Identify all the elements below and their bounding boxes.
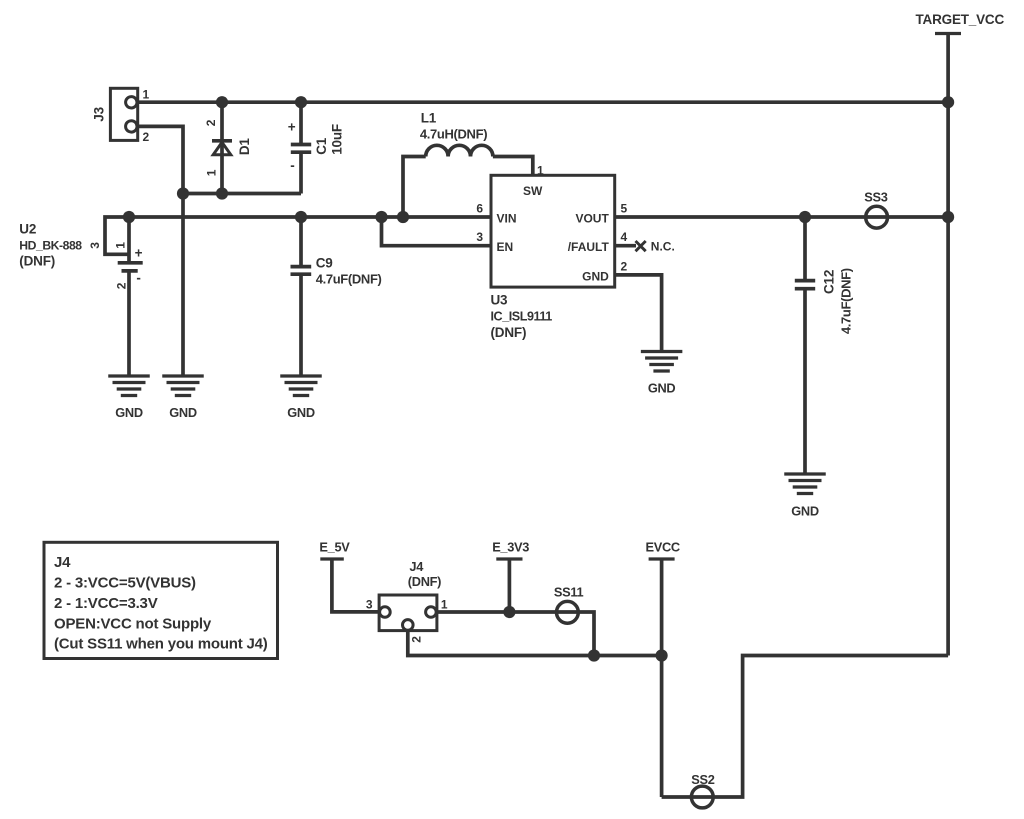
svg-text:2: 2 — [114, 282, 128, 289]
junction — [588, 649, 600, 661]
solder jumper SS3 — [864, 190, 887, 229]
svg-text:2: 2 — [410, 636, 424, 643]
svg-text:SS11: SS11 — [554, 585, 584, 600]
svg-text:2 - 3:VCC=5V(VBUS): 2 - 3:VCC=5V(VBUS) — [54, 575, 196, 592]
svg-text:EN: EN — [497, 240, 514, 254]
junction — [942, 96, 954, 108]
junction — [295, 211, 307, 223]
svg-text:3: 3 — [476, 230, 483, 244]
ground (U2) — [108, 376, 150, 420]
svg-text:1: 1 — [143, 88, 150, 102]
svg-text:3: 3 — [366, 598, 373, 612]
capacitor C9 — [291, 217, 382, 376]
svg-text:2: 2 — [143, 130, 150, 144]
junction — [295, 96, 307, 108]
wire top rail — [138, 100, 948, 104]
svg-text:6: 6 — [476, 201, 483, 215]
svg-text:10uF: 10uF — [330, 124, 345, 155]
svg-text:(DNF): (DNF) — [408, 574, 441, 589]
wire TARGET_VCC vertical — [946, 34, 950, 656]
power flag EVCC — [646, 539, 680, 559]
ground (C12) — [784, 474, 826, 518]
svg-text:J4: J4 — [54, 554, 71, 571]
svg-text:1: 1 — [205, 169, 219, 176]
no-connect N.C. — [636, 239, 675, 253]
IC U3 — [476, 175, 627, 340]
junction — [177, 187, 189, 199]
wire E_5V to J4 pin 3 — [332, 559, 379, 612]
wire FAULT stub — [615, 244, 636, 248]
wire J4 pin 2 bottom — [408, 631, 662, 656]
junction — [397, 211, 409, 223]
svg-text:U2: U2 — [19, 222, 36, 237]
svg-text:VIN: VIN — [497, 211, 517, 225]
svg-text:D1: D1 — [237, 138, 252, 156]
svg-text:-: - — [290, 158, 294, 173]
ground (J3 pin 2) — [162, 376, 204, 420]
battery U2 — [19, 217, 142, 376]
svg-text:N.C.: N.C. — [651, 239, 675, 253]
svg-text:(DNF): (DNF) — [491, 325, 527, 340]
svg-text:GND: GND — [582, 270, 609, 284]
wire J3 pin 2 to GND — [138, 126, 183, 376]
svg-text:4: 4 — [621, 230, 628, 244]
diode D1 — [204, 102, 252, 193]
svg-text:GND: GND — [648, 381, 676, 396]
power flag E_3V3 — [492, 539, 529, 559]
inductor L1 — [403, 111, 533, 218]
svg-text:-: - — [136, 270, 140, 285]
svg-text:J4: J4 — [409, 559, 424, 574]
svg-text:SW: SW — [523, 184, 543, 198]
svg-text:/FAULT: /FAULT — [568, 240, 610, 254]
svg-text:1: 1 — [113, 242, 127, 249]
connector J4 — [366, 559, 448, 643]
wire E_3V3 drop — [508, 559, 512, 612]
svg-text:2: 2 — [621, 260, 628, 274]
junction — [799, 211, 811, 223]
svg-text:1: 1 — [441, 598, 448, 612]
junction — [656, 649, 668, 661]
ground (C9) — [280, 376, 322, 420]
junction — [375, 211, 387, 223]
svg-text:OPEN:VCC not Supply: OPEN:VCC not Supply — [54, 616, 212, 633]
svg-text:5: 5 — [621, 201, 628, 215]
svg-text:GND: GND — [169, 405, 197, 420]
svg-text:(Cut SS11 when you mount J4): (Cut SS11 when you mount J4) — [54, 636, 268, 653]
svg-text:GND: GND — [115, 405, 143, 420]
svg-text:SS2: SS2 — [691, 772, 714, 787]
svg-text:E_5V: E_5V — [319, 539, 350, 554]
svg-text:EVCC: EVCC — [646, 539, 680, 554]
wire EVCC vertical — [660, 559, 664, 797]
svg-text:L1: L1 — [421, 111, 437, 126]
junction — [123, 211, 135, 223]
svg-text:HD_BK-888: HD_BK-888 — [19, 239, 82, 253]
svg-text:SS3: SS3 — [864, 190, 887, 205]
power flag TARGET_VCC — [916, 12, 1005, 34]
wire VOUT rail — [615, 215, 948, 219]
ground (U3) — [641, 352, 683, 396]
wire D1 C1 bottom — [183, 192, 301, 196]
note box J4 — [44, 542, 278, 658]
solder jumper SS11 — [554, 585, 584, 624]
svg-text:4.7uF(DNF): 4.7uF(DNF) — [839, 268, 854, 334]
svg-text:U3: U3 — [491, 293, 509, 308]
wire SS2 loop — [662, 656, 949, 798]
svg-text:GND: GND — [287, 405, 315, 420]
svg-text:C9: C9 — [316, 255, 333, 270]
wire U3 GND pin — [615, 275, 662, 352]
svg-text:J3: J3 — [91, 106, 106, 121]
junction — [503, 606, 515, 618]
svg-text:+: + — [288, 120, 296, 135]
svg-text:(DNF): (DNF) — [19, 254, 55, 269]
svg-text:C1: C1 — [314, 137, 329, 155]
wire EN branch — [382, 217, 492, 246]
junction — [942, 211, 954, 223]
solder jumper SS2 — [691, 772, 714, 808]
svg-text:3: 3 — [88, 242, 102, 249]
wire VIN rail — [105, 217, 491, 254]
svg-text:E_3V3: E_3V3 — [492, 539, 529, 554]
connector J3 — [91, 88, 149, 145]
power flag E_5V — [319, 539, 350, 559]
junction — [216, 96, 228, 108]
svg-text:IC_ISL9111: IC_ISL9111 — [491, 310, 553, 324]
svg-text:4.7uF(DNF): 4.7uF(DNF) — [316, 272, 382, 287]
svg-text:GND: GND — [791, 503, 819, 518]
junction — [216, 187, 228, 199]
svg-text:C12: C12 — [821, 270, 836, 294]
capacitor C1 — [288, 102, 345, 193]
svg-text:+: + — [135, 245, 143, 260]
capacitor C12 — [795, 217, 854, 474]
svg-text:4.7uH(DNF): 4.7uH(DNF) — [420, 127, 487, 142]
svg-text:2: 2 — [204, 119, 218, 126]
svg-text:TARGET_VCC: TARGET_VCC — [916, 12, 1005, 27]
wire J4 pin 1 to SS11 — [437, 612, 594, 656]
svg-text:VOUT: VOUT — [575, 211, 609, 225]
svg-text:2 - 1:VCC=3.3V: 2 - 1:VCC=3.3V — [54, 595, 158, 612]
